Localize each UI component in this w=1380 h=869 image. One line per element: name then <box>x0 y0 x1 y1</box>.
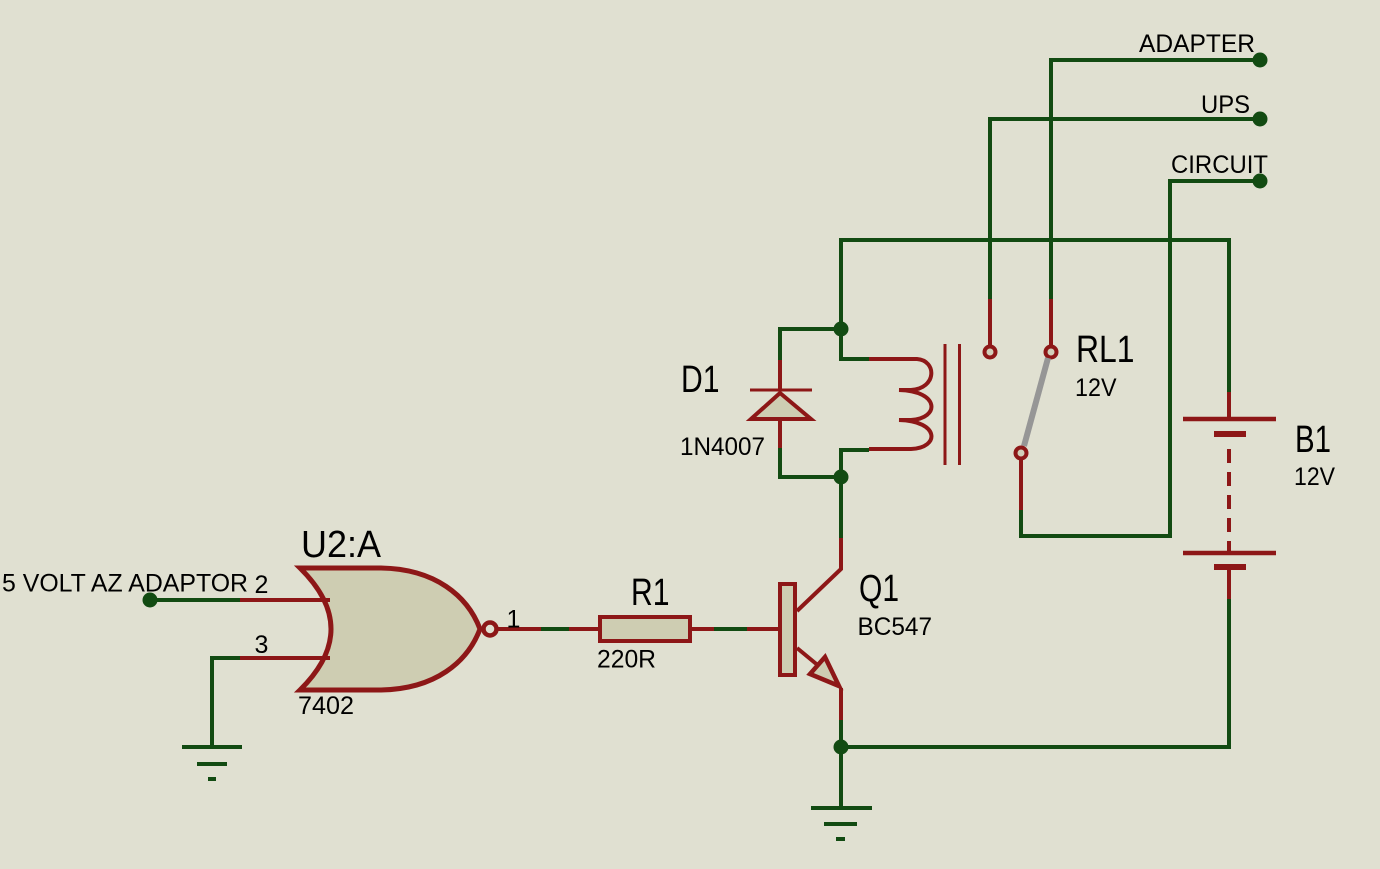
diode D1 triangle <box>751 393 811 419</box>
svg-text:Q1: Q1 <box>859 568 899 610</box>
svg-text:220R: 220R <box>597 646 656 674</box>
svg-text:UPS: UPS <box>1201 91 1250 119</box>
transistor Q1 emitter arrow <box>810 657 839 686</box>
gate output stub <box>498 627 541 631</box>
battery B1 bottom stub <box>1227 569 1231 599</box>
diode D1 cathode stub <box>778 360 782 390</box>
wire emitter green <box>839 720 843 808</box>
svg-text:3: 3 <box>255 631 269 659</box>
junction dot D1 top <box>834 322 849 337</box>
svg-text:U2:A: U2:A <box>301 524 382 566</box>
svg-text:2: 2 <box>255 571 269 599</box>
wire bottom rail green <box>841 599 1229 747</box>
transistor Q1 emitter diagonal <box>797 648 820 667</box>
transistor Q1 collector diagonal <box>797 538 841 611</box>
svg-text:R1: R1 <box>631 572 670 614</box>
transistor Q1 base bar <box>780 584 795 675</box>
wire CIRCUIT green <box>1021 181 1260 536</box>
wire ADAPTER green <box>1051 60 1260 299</box>
junction dot D1 bottom <box>834 470 849 485</box>
battery B1 plate short bottom <box>1214 564 1246 570</box>
gate output bubble <box>484 623 497 636</box>
svg-text:12V: 12V <box>1294 463 1335 491</box>
svg-text:CIRCUIT: CIRCUIT <box>1171 151 1268 179</box>
svg-text:12V: 12V <box>1075 374 1117 402</box>
wire D1 branch green <box>780 329 841 477</box>
wire gate output green <box>541 627 569 631</box>
battery B1 plate long top <box>1183 417 1276 422</box>
NOR gate U2:A body <box>300 568 480 690</box>
terminal dot input <box>143 593 158 608</box>
ground bottom <box>811 808 872 839</box>
svg-text:1: 1 <box>507 606 521 634</box>
relay RL1 coil arcs <box>869 359 931 449</box>
wire UPS green <box>990 119 1260 299</box>
ground left <box>182 747 242 779</box>
relay contact circle right <box>1046 347 1057 358</box>
transistor Q1 emitter stub <box>839 688 843 720</box>
battery B1 plate long bottom <box>1183 551 1276 556</box>
svg-text:ADAPTER: ADAPTER <box>1139 30 1255 58</box>
svg-text:1N4007: 1N4007 <box>680 433 765 461</box>
svg-text:7402: 7402 <box>298 692 354 720</box>
svg-text:D1: D1 <box>681 359 720 401</box>
pin 3 stub <box>240 656 330 660</box>
relay contact circle left <box>985 347 996 358</box>
relay pole circle <box>1016 448 1027 459</box>
battery B1 top stub <box>1227 392 1231 419</box>
svg-text:B1: B1 <box>1295 419 1331 461</box>
transistor Q1 base stub <box>747 627 779 631</box>
pin 2 stub <box>240 598 330 602</box>
wire collector column green <box>841 450 869 538</box>
battery B1 plate short top <box>1214 431 1246 437</box>
junction dot emitter <box>834 740 849 755</box>
relay pole stub <box>1019 460 1023 510</box>
svg-text:RL1: RL1 <box>1076 329 1135 371</box>
resistor R1 body <box>600 617 690 641</box>
terminal dot ADAPTER <box>1253 53 1268 68</box>
wire to base green <box>714 627 747 631</box>
battery B1 dashed middle <box>1227 449 1231 553</box>
relay RL1 core lines <box>945 344 960 465</box>
terminal dot UPS <box>1253 112 1268 127</box>
wire input green <box>150 598 240 602</box>
svg-text:BC547: BC547 <box>858 613 933 641</box>
resistor R1 right stub <box>692 627 714 631</box>
diode D1 cathode bar <box>750 389 812 392</box>
relay switch arm gray <box>1024 358 1048 446</box>
svg-text:5 VOLT AZ ADAPTOR: 5 VOLT AZ ADAPTOR <box>2 570 248 598</box>
relay contact ADAPTER stub <box>1049 299 1053 346</box>
wire collector top to rail green <box>841 240 1229 392</box>
diode D1 anode stub <box>778 419 782 448</box>
resistor R1 left stub <box>569 627 598 631</box>
terminal dot CIRCUIT <box>1253 174 1268 189</box>
wire pin3 green <box>212 658 240 747</box>
relay contact UPS stub <box>988 299 992 346</box>
